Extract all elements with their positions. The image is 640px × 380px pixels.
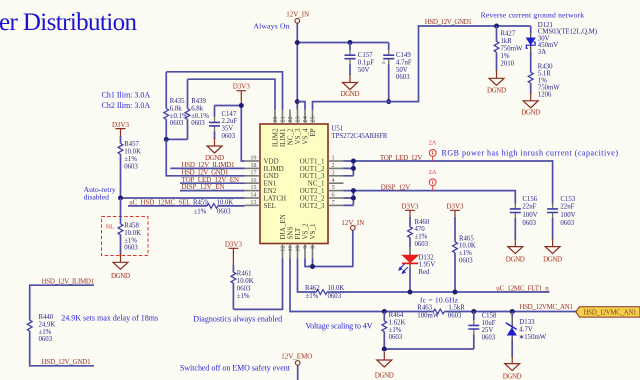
svg-text:disabled: disabled — [84, 193, 110, 202]
node VS_1 junction — [310, 264, 315, 269]
svg-text:100V: 100V — [560, 212, 575, 219]
svg-text:2: 2 — [332, 162, 335, 169]
svg-text:16: 16 — [250, 177, 256, 184]
svg-text:C158: C158 — [482, 312, 497, 319]
svg-text:R459: R459 — [193, 200, 208, 207]
svg-text:25: 25 — [310, 116, 317, 122]
wire R435 R439 bottoms joined — [166, 138, 187, 140]
node R464 top junction — [382, 309, 387, 314]
node LATCH junction — [118, 196, 123, 201]
wire 12V_IN vertical to VS pins — [296, 23, 298, 109]
svg-text:DGND: DGND — [341, 90, 360, 98]
svg-text:750mW: 750mW — [501, 46, 523, 53]
node R464 bottom junction — [382, 347, 387, 352]
svg-text:5: 5 — [332, 184, 335, 191]
ground DGND under D133 — [505, 356, 520, 371]
power D3V3 at VDD — [233, 83, 251, 106]
resistor R457 — [118, 136, 141, 198]
resistor R464 — [382, 312, 406, 350]
U51 bottom pin stubs 12-8 — [283, 244, 313, 259]
svg-text:20: 20 — [272, 116, 279, 122]
wire R435 top to pin ILIM1 — [166, 72, 282, 110]
node C157 top junction — [348, 40, 353, 45]
svg-text:R464: R464 — [389, 312, 404, 319]
svg-text:2.2uF: 2.2uF — [222, 118, 238, 125]
svg-text:±1%: ±1% — [415, 234, 428, 241]
svg-text:0603: 0603 — [459, 258, 473, 265]
svg-text:1.95V: 1.95V — [419, 262, 436, 269]
svg-text:23: 23 — [295, 116, 302, 122]
svg-text:R458: R458 — [124, 223, 139, 230]
svg-text:TOP_LED_12V: TOP_LED_12V — [380, 154, 423, 162]
svg-text:OUT2_3: OUT2_3 — [300, 202, 325, 210]
svg-text:0603: 0603 — [237, 285, 251, 292]
svg-text:1%: 1% — [538, 78, 547, 85]
svg-text:NL: NL — [106, 224, 115, 231]
svg-text:U51: U51 — [332, 125, 344, 132]
svg-text:C149: C149 — [396, 52, 411, 59]
svg-text:∗150mW: ∗150mW — [519, 334, 547, 341]
svg-text:D3V3: D3V3 — [446, 202, 464, 210]
svg-text:Ch1 Ilim: 3.0A: Ch1 Ilim: 3.0A — [102, 91, 151, 100]
svg-text:100V: 100V — [522, 212, 537, 219]
svg-text:24.9K sets max delay of 18ms: 24.9K sets max delay of 18ms — [61, 313, 158, 322]
capacitor C149 — [382, 43, 412, 102]
svg-text:9: 9 — [302, 246, 309, 249]
svg-text:3: 3 — [332, 169, 335, 176]
svg-text:2A: 2A — [429, 140, 437, 147]
svg-text:D3V3: D3V3 — [401, 202, 419, 210]
diode D133 zener — [506, 312, 547, 358]
svg-text:2A: 2A — [429, 169, 437, 176]
node OUT2_1 junction — [351, 188, 356, 193]
wire LATCH to R457 R458 junction — [121, 197, 245, 199]
svg-text:0603: 0603 — [124, 163, 138, 170]
svg-text:R435: R435 — [170, 98, 185, 105]
svg-text:DGND: DGND — [543, 256, 562, 264]
svg-text:HSD_12V_GND1: HSD_12V_GND1 — [425, 18, 473, 26]
resistor R465 — [453, 217, 476, 292]
node OUT1_1 junction — [351, 159, 356, 164]
resistor R430 — [528, 64, 560, 99]
svg-text:6.8k: 6.8k — [170, 105, 182, 112]
svg-text:SEL: SEL — [264, 202, 276, 210]
svg-text:5.1R: 5.1R — [538, 71, 551, 78]
svg-text:12: 12 — [280, 246, 287, 252]
resistor R460 — [408, 217, 430, 248]
off-page port HSD_12VMC_AN1 yellow — [576, 307, 640, 317]
wire TOP_LED_12V rail to C153 — [353, 161, 552, 204]
svg-text:DGND: DGND — [487, 87, 506, 95]
svg-text:7: 7 — [332, 199, 335, 206]
wire OUT1 pins bus — [344, 161, 354, 176]
resistor R427 — [494, 26, 523, 71]
svg-text:0603: 0603 — [217, 208, 231, 215]
node D3V3 C147 junction — [239, 103, 244, 108]
svg-text:±1%: ±1% — [389, 327, 402, 334]
resistor R459 in SEL line — [128, 200, 245, 216]
svg-text:1.5kR: 1.5kR — [448, 305, 465, 312]
svg-text:Ch2 Ilim: 3.0A: Ch2 Ilim: 3.0A — [102, 101, 151, 110]
capacitor C147 — [209, 106, 237, 141]
node R427 top junction — [494, 24, 499, 29]
svg-text:10.0K: 10.0K — [124, 230, 141, 237]
svg-text:17: 17 — [250, 169, 256, 176]
svg-text:10.0K: 10.0K — [459, 243, 476, 250]
node 12V rail junction — [295, 40, 300, 45]
svg-text:0603: 0603 — [222, 133, 236, 140]
node R435 bottom junction — [164, 137, 169, 142]
node D133 top junction — [510, 309, 515, 314]
U51 top pin names — [271, 128, 317, 147]
svg-text:R462: R462 — [305, 285, 320, 292]
node VS_3 junction — [295, 99, 300, 104]
svg-text:HSD_12VMC_AN1: HSD_12VMC_AN1 — [519, 303, 573, 311]
svg-text:uC_12MC_FLT1_n: uC_12MC_FLT1_n — [496, 284, 549, 292]
node R465 FLT junction — [453, 290, 458, 295]
svg-text:R439: R439 — [191, 98, 206, 105]
svg-text:D3V3: D3V3 — [225, 241, 243, 249]
power D3V3 above R460 — [401, 202, 419, 218]
svg-text:HSD_12V_ILIMD1: HSD_12V_ILIMD1 — [42, 277, 95, 285]
wire R461 to DIA_EN — [233, 259, 282, 310]
U51 bottom pin names — [279, 214, 317, 239]
ground DGND under R427 — [489, 70, 504, 85]
ground DGND under R430 — [523, 93, 538, 108]
svg-text:R440: R440 — [39, 314, 54, 321]
U51 left pin names — [264, 157, 287, 209]
svg-text:R457: R457 — [124, 141, 139, 148]
wire GND net to pin 17 — [166, 139, 244, 175]
svg-text:12V_EMO: 12V_EMO — [281, 352, 312, 360]
svg-text:100mW: 100mW — [417, 313, 439, 320]
svg-text:RGB power has high inrush curr: RGB power has high inrush current (capac… — [442, 149, 619, 158]
U51 top pin numbers — [272, 116, 317, 122]
ground DGND under C153 — [545, 239, 560, 254]
wire R464 C158 bottom rail — [384, 348, 474, 350]
svg-text:3A: 3A — [538, 49, 546, 56]
svg-text:D3V3: D3V3 — [112, 121, 130, 129]
svg-text:R463: R463 — [417, 305, 432, 312]
svg-text:0.1µF: 0.1µF — [358, 59, 374, 66]
svg-text:±1%: ±1% — [39, 329, 52, 336]
svg-text:0603: 0603 — [396, 74, 410, 81]
svg-text:24.9K: 24.9K — [39, 321, 56, 328]
svg-text:4.7nF: 4.7nF — [396, 59, 412, 66]
svg-text:HSD_12VMC_AN1: HSD_12VMC_AN1 — [584, 309, 638, 317]
resistor R461 — [231, 265, 254, 309]
svg-text:D3V3: D3V3 — [233, 83, 251, 91]
svg-text:C147: C147 — [222, 111, 237, 118]
svg-text:4.7V: 4.7V — [519, 326, 532, 333]
svg-text:±1%: ±1% — [124, 156, 137, 163]
svg-text:50V: 50V — [396, 67, 408, 74]
svg-text:DGND: DGND — [111, 272, 130, 280]
svg-text:R461: R461 — [237, 271, 252, 278]
wire 12V rail to C157 C149 — [297, 42, 388, 44]
node C149 bottom junction — [386, 99, 391, 104]
capacitor C158 — [468, 312, 497, 350]
svg-text:±1%: ±1% — [306, 293, 319, 300]
U51 left pin numbers — [250, 155, 256, 206]
wire VS_3 to VS_4 — [297, 102, 305, 110]
LED D132 red — [398, 247, 435, 292]
capacitor C157 — [345, 43, 375, 76]
ground DGND under R464 — [377, 352, 392, 367]
svg-text:0603: 0603 — [170, 120, 184, 127]
svg-text:10: 10 — [295, 246, 302, 252]
svg-text:0603: 0603 — [389, 334, 403, 341]
svg-text:4: 4 — [332, 177, 335, 184]
wire FLT line — [298, 259, 317, 293]
current probe 2A on TOP_LED_12V — [429, 140, 437, 162]
svg-text:35V: 35V — [222, 126, 234, 133]
svg-text:1%: 1% — [501, 53, 510, 60]
capacitor C156 — [510, 196, 538, 240]
svg-text:1206: 1206 — [538, 92, 552, 99]
resistor R435 — [164, 72, 188, 140]
node OUT1_2 junction — [351, 166, 356, 171]
wire 12V_IN to VS_1 VS_2 — [305, 230, 353, 266]
svg-text:10.0K: 10.0K — [237, 278, 254, 285]
svg-text:13: 13 — [250, 199, 256, 206]
U51 top pin stubs 20-25 — [275, 110, 313, 125]
power D3V3 above R461 — [225, 241, 243, 267]
svg-text:0603: 0603 — [124, 245, 138, 252]
port 12V_IN lower — [341, 219, 364, 230]
wire pin 16 stub — [180, 182, 245, 184]
svg-text:fc = 10.6Hz: fc = 10.6Hz — [420, 296, 459, 305]
svg-text:±1%: ±1% — [237, 293, 250, 300]
svg-text:1: 1 — [332, 155, 335, 162]
svg-text:10uF: 10uF — [482, 320, 496, 327]
wire C147 top rail to D3V3 and VDD — [215, 106, 245, 162]
svg-text:0603: 0603 — [39, 336, 53, 343]
power D3V3 above R465 — [446, 202, 464, 218]
svg-text:1kR: 1kR — [501, 38, 513, 45]
port 12V_IN top — [286, 11, 309, 24]
svg-text:VS_1: VS_1 — [309, 223, 317, 239]
svg-text:Diagnostics always enabled: Diagnostics always enabled — [193, 315, 282, 324]
svg-text:0603: 0603 — [560, 220, 574, 227]
ground DGND under C156 — [508, 239, 523, 254]
svg-text:2010: 2010 — [501, 61, 515, 68]
svg-text:0603: 0603 — [415, 241, 429, 248]
svg-text:er Distribution: er Distribution — [0, 9, 138, 36]
svg-text:±1%: ±1% — [459, 250, 472, 257]
wire SNS line — [290, 259, 434, 312]
ground DGND under C157 — [343, 74, 358, 90]
svg-text:0603: 0603 — [522, 220, 536, 227]
svg-text:22nF: 22nF — [560, 204, 574, 211]
wire EP to HSD_12V_GND1 — [313, 26, 531, 110]
resistor R440 — [27, 314, 94, 366]
svg-text:D133: D133 — [519, 319, 535, 326]
svg-text:C153: C153 — [560, 196, 575, 203]
resistor R439 — [185, 79, 209, 139]
resistor R458 — [118, 198, 141, 255]
svg-text:6.8k: 6.8k — [191, 105, 203, 112]
svg-text:R465: R465 — [459, 235, 474, 242]
U51 bottom pin numbers — [280, 246, 317, 252]
wire ILIMD1 to R440 — [30, 285, 94, 320]
svg-text:DGND: DGND — [375, 372, 394, 380]
svg-text:C156: C156 — [522, 196, 537, 203]
svg-text:DISP_12V: DISP_12V — [381, 183, 411, 191]
ground DGND under C147 — [207, 138, 222, 153]
svg-text:DGND: DGND — [506, 256, 525, 264]
wire pin 15 stub — [180, 190, 245, 192]
svg-text:Always On: Always On — [254, 22, 290, 31]
svg-text:22: 22 — [287, 116, 294, 122]
svg-text:Switched off on EMO safety eve: Switched off on EMO safety event — [180, 364, 291, 373]
port 12V_EMO — [281, 352, 312, 380]
U51 left pin stubs 19-13 — [245, 161, 261, 205]
svg-text:1.62K: 1.62K — [389, 319, 406, 326]
svg-text:HSD_12V_GND1: HSD_12V_GND1 — [42, 358, 92, 366]
svg-text:10.0K: 10.0K — [328, 285, 345, 292]
ground DGND under R458 — [113, 254, 128, 269]
svg-text:±1%: ±1% — [194, 208, 207, 215]
current probe 2A on DISP_12V — [429, 169, 437, 191]
svg-text:22nF: 22nF — [522, 204, 536, 211]
svg-text:12V_IN: 12V_IN — [286, 11, 309, 19]
svg-text:10.0K: 10.0K — [124, 149, 141, 156]
svg-text:6: 6 — [332, 192, 335, 199]
svg-text:15: 15 — [250, 184, 256, 191]
svg-text:19: 19 — [250, 155, 256, 162]
svg-text:50V: 50V — [358, 67, 370, 74]
IC U51 body — [260, 124, 388, 244]
svg-text:DGND: DGND — [521, 109, 540, 117]
svg-text:R460: R460 — [415, 219, 430, 226]
svg-text:a: a — [382, 60, 385, 66]
svg-text:R427: R427 — [501, 31, 516, 38]
svg-text:0603: 0603 — [328, 293, 342, 300]
U51 right pin numbers — [332, 155, 335, 206]
svg-text:TPS272C45ARHFR: TPS272C45ARHFR — [332, 133, 388, 140]
node C158 top junction — [471, 309, 476, 314]
NL red dashed box — [102, 217, 149, 256]
svg-text:DGND: DGND — [503, 373, 522, 380]
svg-text:18: 18 — [250, 162, 256, 169]
U51 right pin names — [300, 157, 325, 209]
wire pin 18 stub — [170, 167, 244, 169]
resistor R463 — [417, 305, 576, 320]
svg-text:±0.1%: ±0.1% — [191, 113, 209, 120]
svg-text:0603: 0603 — [191, 120, 205, 127]
svg-text:24: 24 — [302, 116, 309, 122]
svg-text:C157: C157 — [358, 52, 373, 59]
wire DISP_12V rail to C156 — [353, 191, 515, 204]
resistor R462 — [305, 285, 550, 300]
svg-text:750mW: 750mW — [538, 85, 560, 92]
svg-text:Voltage scaling to 4V: Voltage scaling to 4V — [306, 322, 373, 331]
svg-text:470: 470 — [415, 226, 426, 233]
svg-text:0603: 0603 — [448, 313, 462, 320]
svg-text:10.0K: 10.0K — [217, 200, 234, 207]
node OUT2_2 junction — [351, 196, 356, 201]
wire OUT2 pins bus — [344, 191, 354, 206]
node D132 FLT junction — [408, 290, 413, 295]
wire R439 top to pin ILIM2 — [188, 79, 276, 109]
diode D121 schottky — [526, 22, 597, 73]
svg-text:EP: EP — [309, 128, 317, 136]
svg-text:11: 11 — [287, 246, 294, 252]
svg-text:R430: R430 — [538, 64, 553, 71]
svg-text:0603: 0603 — [482, 335, 496, 342]
svg-text:14: 14 — [250, 192, 256, 199]
svg-text:±1%: ±1% — [124, 237, 137, 244]
svg-text:Reverse current ground network: Reverse current ground network — [481, 10, 585, 19]
svg-text:D132: D132 — [419, 254, 435, 261]
svg-text:25V: 25V — [482, 327, 494, 334]
capacitor C153 — [547, 196, 576, 240]
svg-text:21: 21 — [280, 116, 287, 122]
power D3V3 above R457 — [112, 121, 130, 137]
svg-text:8: 8 — [310, 246, 317, 249]
svg-text:Red: Red — [419, 269, 431, 276]
U51 right pin stubs 1-7 — [328, 161, 344, 205]
